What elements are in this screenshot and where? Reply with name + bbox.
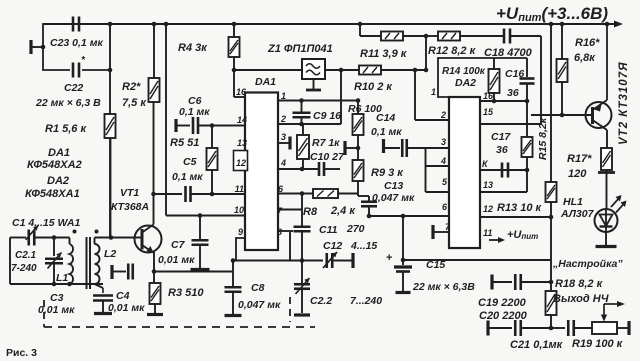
- svg-text:R1 5,6 к: R1 5,6 к: [45, 123, 87, 135]
- svg-text:R4 3к: R4 3к: [178, 42, 208, 54]
- svg-text:10: 10: [234, 205, 244, 215]
- wire R4 to DA1 pin16: [232, 57, 245, 97]
- svg-text:0,1 мк: 0,1 мк: [179, 106, 210, 118]
- svg-text:VT2 КТ3107Я: VT2 КТ3107Я: [618, 62, 630, 146]
- svg-text:R3 510: R3 510: [168, 287, 204, 299]
- svg-text:12: 12: [483, 204, 493, 214]
- svg-text:R13 10 к: R13 10 к: [497, 202, 543, 214]
- svg-text:С19 2200: С19 2200: [478, 297, 527, 309]
- svg-text:R2*: R2*: [122, 81, 141, 93]
- capacitor C1: [12, 217, 80, 246]
- resistor R3: [147, 272, 204, 315]
- capacitor C15: [386, 252, 475, 293]
- svg-text:L2: L2: [104, 248, 116, 260]
- svg-text:С3: С3: [50, 292, 64, 304]
- capacitor C2.1: [11, 238, 63, 285]
- svg-text:С17: С17: [491, 131, 511, 143]
- resistor R7: [297, 124, 340, 169]
- svg-text:КФ548ХА1: КФ548ХА1: [25, 188, 80, 200]
- resistor R18: [546, 278, 604, 328]
- wire input box outline: [43, 24, 110, 70]
- capacitor C23: [50, 17, 103, 50]
- svg-text:L1: L1: [56, 272, 68, 284]
- wire DA1 pin7 to C11: [278, 194, 302, 227]
- svg-text:Выход НЧ: Выход НЧ: [553, 293, 609, 305]
- capacitor C21: [510, 320, 592, 351]
- wire DA1 pin6 row / R8: [278, 191, 313, 196]
- svg-text:8: 8: [277, 227, 282, 237]
- resistor R5: [170, 126, 218, 197]
- terminal LED cathode: [596, 232, 617, 247]
- inductor L2: [95, 238, 117, 294]
- wire DA1 pin2 row: [278, 122, 341, 127]
- svg-text:2: 2: [280, 114, 286, 124]
- svg-text:С11: С11: [319, 224, 338, 236]
- wire DA2 pin3 pin4 pin5 column: [426, 148, 450, 192]
- wire Z1 out to DA1 pin2: [340, 70, 342, 124]
- resistor R13: [497, 24, 557, 217]
- svg-text:2: 2: [440, 110, 446, 120]
- capacitor C3: [38, 292, 113, 316]
- svg-text:R11 3,9 к: R11 3,9 к: [360, 48, 408, 60]
- resistor R8: [303, 189, 358, 218]
- svg-text:11: 11: [483, 228, 492, 238]
- wire R1 column to base node: [110, 138, 112, 238]
- resistor R10: [354, 66, 393, 94]
- svg-text:16: 16: [483, 91, 494, 101]
- wire C18 to DA2 pin15: [480, 36, 541, 124]
- wire DA2 pin12 row: [480, 215, 553, 220]
- label Upit pin11: [489, 229, 538, 243]
- capacitor C13: [361, 180, 415, 216]
- LED HL1: [560, 195, 627, 232]
- svg-text:С12: С12: [323, 240, 342, 252]
- wire tank top: [10, 237, 26, 239]
- wire pin6 down to C15: [401, 216, 406, 262]
- svg-text:С5: С5: [183, 156, 197, 168]
- wire DA1 pin9 loop: [231, 232, 305, 263]
- capacitor C9: [293, 101, 342, 125]
- svg-text:DA1: DA1: [255, 76, 276, 88]
- capacitor C10: [310, 151, 345, 176]
- label DA1 left pins: [234, 87, 247, 237]
- resistor R6: [348, 101, 382, 161]
- svg-text:R9 3 к: R9 3 к: [371, 167, 404, 179]
- svg-text:36: 36: [507, 87, 519, 99]
- svg-text:КФ548ХА2: КФ548ХА2: [27, 159, 82, 171]
- svg-text:DA1: DA1: [48, 147, 70, 159]
- svg-text:С9 16: С9 16: [313, 110, 341, 122]
- svg-text:13: 13: [483, 180, 493, 190]
- svg-text:+Uпит(+3...6В): +Uпит(+3...6В): [496, 4, 608, 24]
- wire feedback box: [438, 58, 527, 97]
- svg-text:4: 4: [440, 156, 446, 166]
- resistor R9: [353, 160, 405, 196]
- svg-text:16: 16: [236, 87, 247, 97]
- resistor R12: [424, 32, 503, 58]
- potentiometer R19: [572, 321, 629, 350]
- svg-text:13: 13: [237, 138, 247, 148]
- wire R2 to VT1 collector: [151, 102, 156, 223]
- resistor R15: [522, 101, 550, 172]
- svg-text:DA2: DA2: [47, 175, 69, 187]
- svg-text:0,01 мк: 0,01 мк: [158, 254, 195, 266]
- wire DA2 pin16 row: [480, 99, 529, 104]
- terminal DA1 pin3: [278, 137, 290, 150]
- svg-text:DA2: DA2: [455, 77, 476, 89]
- svg-text:С15: С15: [426, 259, 445, 271]
- svg-text:22 мк × 6,3В: 22 мк × 6,3В: [412, 281, 475, 293]
- svg-text:R18 8,2 к: R18 8,2 к: [555, 278, 604, 290]
- wire DA2 pin13 row: [480, 170, 527, 192]
- svg-text:0,047 мк: 0,047 мк: [372, 192, 415, 204]
- svg-text:С13: С13: [384, 180, 403, 192]
- label Vykhod NCh: [553, 293, 625, 322]
- svg-text:+: +: [386, 252, 392, 264]
- resistor R14: [442, 58, 500, 103]
- terminal DA2 pin7: [433, 225, 449, 239]
- svg-text:R17*: R17*: [567, 153, 592, 165]
- wire tank left and bottom: [10, 238, 103, 287]
- wire VT2 base row: [531, 114, 592, 116]
- wire to DA2 pin2: [415, 70, 449, 120]
- svg-text:С2.1: С2.1: [15, 250, 37, 261]
- svg-text:270: 270: [346, 223, 365, 235]
- label DA2 right pins: [482, 91, 494, 238]
- wire base feed: [95, 235, 143, 240]
- svg-text:HL1: HL1: [563, 196, 583, 208]
- label DA1 type: [27, 147, 82, 171]
- label +Upit supply: [496, 4, 608, 24]
- svg-text:С14: С14: [376, 112, 395, 124]
- svg-text:С4: С4: [116, 290, 130, 302]
- svg-text:С1 4...15 WA1: С1 4...15 WA1: [12, 217, 80, 229]
- resistor R16: [557, 24, 601, 117]
- svg-text:С20 2200: С20 2200: [479, 310, 528, 322]
- svg-text:С7: С7: [171, 239, 186, 251]
- svg-text:12: 12: [236, 158, 246, 168]
- svg-text:0,047 мк: 0,047 мк: [238, 299, 281, 311]
- capacitor C12: [302, 240, 377, 268]
- svg-text:R7 1к: R7 1к: [312, 137, 340, 149]
- resistor R1: [45, 70, 116, 237]
- svg-text:1: 1: [281, 91, 286, 101]
- node polarity dots: [73, 230, 99, 234]
- wire pin12 node down: [550, 217, 552, 260]
- svg-text:3: 3: [281, 132, 286, 142]
- svg-text:С16: С16: [505, 68, 524, 80]
- label DA2 left pins: [431, 87, 451, 232]
- svg-text:Рис. 3: Рис. 3: [6, 347, 37, 359]
- capacitor C11: [278, 223, 365, 261]
- svg-text:КТ368А: КТ368А: [111, 201, 149, 213]
- svg-text:С21 0,1мк: С21 0,1мк: [510, 339, 564, 351]
- capacitor C8: [225, 261, 281, 316]
- capacitor C7: [158, 216, 210, 270]
- svg-text:4...15: 4...15: [350, 240, 377, 252]
- svg-text:7-240: 7-240: [11, 263, 37, 274]
- capacitor C22: [35, 55, 112, 109]
- svg-text:3: 3: [441, 137, 446, 147]
- capacitor C2.2: [294, 261, 382, 316]
- filter Z1: [234, 43, 333, 90]
- svg-text:R14 100к: R14 100к: [442, 66, 486, 77]
- wire R11-R12 node down: [425, 36, 427, 70]
- resistor R2: [122, 24, 160, 109]
- svg-text:R12 8,2 к: R12 8,2 к: [428, 45, 477, 57]
- svg-text:R16*: R16*: [575, 37, 600, 49]
- svg-text:1: 1: [431, 87, 436, 97]
- svg-text:6,8к: 6,8к: [574, 52, 596, 64]
- svg-text:2,4 к: 2,4 к: [330, 205, 356, 217]
- svg-text:С2.2: С2.2: [310, 295, 332, 307]
- capacitor C17: [480, 131, 527, 178]
- wire DA1 pin1 row: [278, 98, 360, 103]
- resistor R4: [178, 24, 240, 57]
- svg-text:R5 51: R5 51: [170, 137, 199, 149]
- svg-text:4: 4: [280, 158, 286, 168]
- capacitor C20: [478, 297, 553, 336]
- svg-text:0,1 мк: 0,1 мк: [172, 171, 203, 183]
- op-amp IC DA1: [245, 76, 278, 250]
- wire top supply rail +Upit: [43, 21, 623, 28]
- svg-text:0,01 мк: 0,01 мк: [108, 302, 145, 314]
- wire rail to pin10 row: [166, 24, 245, 218]
- svg-text:R19 100 к: R19 100 к: [572, 338, 624, 350]
- capacitor C16: [505, 58, 535, 101]
- capacitor C4: [108, 264, 145, 315]
- op-amp IC DA2: [449, 97, 480, 248]
- wire DA2 pin6 row: [367, 214, 449, 219]
- svg-text:R10 2 к: R10 2 к: [354, 81, 393, 93]
- svg-text:„Настройка”: „Настройка”: [552, 258, 623, 270]
- capacitor C18: [484, 29, 541, 60]
- svg-text:Z1 ФП1П041: Z1 ФП1П041: [267, 43, 333, 55]
- wire DA1 pin4 row: [278, 167, 319, 172]
- svg-text:9: 9: [238, 227, 243, 237]
- svg-text:R8: R8: [303, 206, 318, 218]
- transistor VT1: [111, 187, 162, 253]
- resistor R17: [567, 130, 615, 209]
- svg-text:0,1 мк: 0,1 мк: [371, 126, 402, 138]
- antenna input terminal: [31, 40, 45, 54]
- svg-text:120: 120: [568, 168, 587, 180]
- svg-text:VT1: VT1: [120, 187, 139, 199]
- label DA2 type: [25, 175, 80, 200]
- svg-text:22 мк × 6,3 В: 22 мк × 6,3 В: [35, 97, 101, 109]
- inductor L1: [56, 238, 73, 285]
- svg-text:7...240: 7...240: [350, 295, 382, 307]
- wire Z1 out / R10 row: [325, 68, 428, 73]
- svg-text:С22: С22: [64, 82, 83, 94]
- svg-text:36: 36: [496, 144, 508, 156]
- label Nastroyka: [552, 258, 623, 270]
- label DA1 right pins: [277, 91, 286, 237]
- svg-text:АЛ307: АЛ307: [560, 208, 595, 220]
- svg-text:7,5 к: 7,5 к: [122, 97, 147, 109]
- wire VT1 emitter: [152, 252, 233, 274]
- svg-text:15: 15: [483, 107, 494, 117]
- svg-text:С10 27: С10 27: [310, 151, 345, 163]
- svg-text:R15 8,2к: R15 8,2к: [537, 117, 549, 160]
- wire dashed shield outline: [44, 297, 315, 327]
- capacitor C19: [492, 260, 553, 290]
- capacitor C5: [154, 156, 245, 202]
- label DA1 pin12 box: [234, 151, 248, 171]
- wire audio bus: [403, 259, 551, 261]
- label figure caption: [6, 347, 37, 359]
- svg-text:11: 11: [235, 184, 244, 194]
- capacitor C6: [176, 95, 245, 134]
- transistor VT2: [586, 24, 631, 145]
- core lines: [87, 237, 91, 289]
- capacitor C14: [345, 112, 449, 157]
- svg-text:С23 0,1 мк: С23 0,1 мк: [50, 37, 103, 49]
- resistor R11: [360, 24, 426, 60]
- svg-text:14: 14: [237, 115, 247, 125]
- svg-text:С8: С8: [251, 282, 265, 294]
- node rail junctions: [108, 22, 610, 27]
